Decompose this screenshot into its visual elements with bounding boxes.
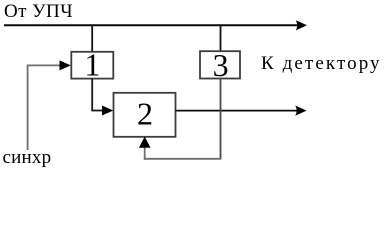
arrowhead: into block 2 bottom bbox=[139, 137, 151, 148]
svg-text:От УПЧ: От УПЧ bbox=[4, 1, 73, 22]
wire: drop from main line to block 3 bbox=[220, 25, 222, 52]
block 1 bbox=[71, 52, 113, 79]
wire: block 3 down vertical bbox=[220, 79, 222, 160]
block 2 bbox=[114, 93, 176, 137]
svg-text:3: 3 bbox=[213, 47, 229, 83]
arrowhead: into block 1 bbox=[60, 60, 71, 70]
svg-text:К детектору: К детектору bbox=[261, 53, 382, 74]
wire: sync horizontal into block 1 bbox=[27, 64, 61, 66]
svg-text:синхр: синхр bbox=[3, 147, 52, 168]
wire: block 2 output line bbox=[176, 110, 299, 112]
wire: feedback vertical up into block 2 bbox=[144, 146, 146, 160]
wire: feedback horizontal bbox=[144, 158, 222, 160]
svg-text:1: 1 bbox=[84, 46, 100, 82]
arrowhead: main line output right bbox=[296, 20, 307, 30]
wire: block 1 to block 2 horizontal bbox=[91, 110, 103, 112]
wire: drop from main line to block 1 bbox=[91, 25, 93, 52]
block 3 bbox=[200, 51, 240, 78]
wire: main input line from УПЧ bbox=[4, 24, 299, 26]
svg-text:2: 2 bbox=[137, 95, 153, 131]
arrowhead: block 2 output right bbox=[295, 106, 306, 116]
arrowhead: into block 2 left bbox=[102, 106, 113, 116]
wire: block 1 to block 2 vertical bbox=[91, 79, 93, 111]
wire: sync vertical riser bbox=[27, 65, 29, 150]
